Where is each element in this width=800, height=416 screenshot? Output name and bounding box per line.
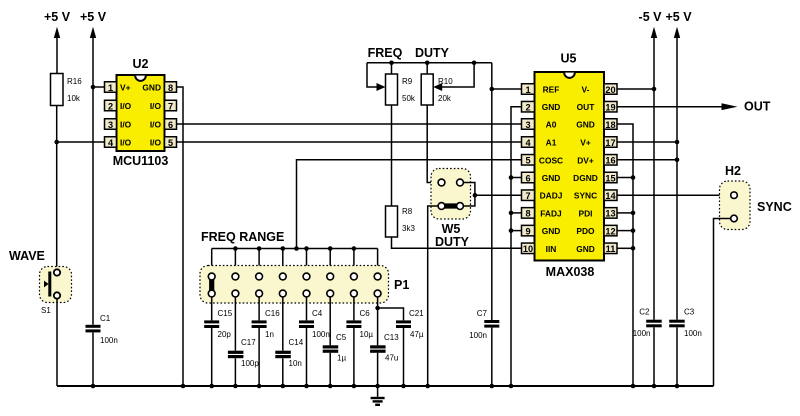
wire C17 to rail — [234, 358, 236, 386]
wire REF vertical line down to C7 — [491, 63, 493, 320]
svg-text:FADJ: FADJ — [540, 208, 562, 218]
svg-text:+5 V: +5 V — [665, 10, 692, 24]
svg-text:DUTY: DUTY — [435, 235, 470, 249]
svg-text:8: 8 — [525, 209, 530, 219]
svg-text:2: 2 — [108, 101, 113, 111]
wire C4 to rail — [306, 328, 308, 386]
wire pin 15 stub — [617, 177, 633, 179]
U5 pin 4 box — [522, 137, 535, 148]
node REF / U5 pin 1 — [490, 87, 495, 92]
U2 pin 6 box — [165, 119, 177, 130]
wire bus stub col1 — [211, 249, 213, 274]
svg-text:4: 4 — [525, 138, 531, 148]
svg-text:C3: C3 — [684, 308, 695, 317]
svg-text:GND: GND — [142, 83, 161, 93]
node C21/rail — [401, 384, 406, 389]
power +5V supply 1 (left) — [44, 10, 71, 74]
svg-text:R9: R9 — [402, 77, 413, 86]
svg-text:100p: 100p — [241, 359, 259, 368]
wire pin 11 stub — [617, 247, 633, 249]
potentiometer R10 20k — [421, 63, 474, 105]
svg-text:7: 7 — [525, 191, 530, 201]
svg-text:C4: C4 — [312, 309, 323, 318]
resistor R8 3k3 — [386, 206, 416, 237]
U5 pin 20 box — [604, 84, 617, 95]
U5 pin 15 box — [604, 172, 617, 183]
wire U5 pin 5 COSC to P1 bus — [297, 160, 522, 249]
capacitor C21 47u — [396, 309, 424, 339]
node bus col7 — [352, 246, 357, 251]
wire C15 to rail — [211, 328, 213, 386]
svg-text:18: 18 — [605, 120, 615, 130]
capacitor C15 20p — [204, 309, 233, 339]
node R10 wiper tap — [472, 61, 477, 66]
svg-text:100n: 100n — [684, 329, 702, 338]
wire U5 pin 16 to +5V — [617, 159, 677, 161]
resistor R16 — [51, 74, 83, 106]
svg-text:U2: U2 — [133, 57, 149, 71]
svg-text:R8: R8 — [402, 207, 413, 216]
svg-text:C16: C16 — [265, 309, 280, 318]
svg-text:100n: 100n — [312, 330, 330, 339]
node junction +5V / U2 pin 1 — [91, 85, 96, 90]
wire pin 9 stub — [511, 230, 522, 232]
capacitor C16 1n — [252, 309, 281, 339]
wire pin 12 stub — [617, 230, 633, 232]
svg-text:MCU1103: MCU1103 — [113, 154, 169, 168]
U5 pin 18 box — [604, 119, 617, 130]
power -5V supply — [639, 10, 663, 320]
wire U5 pin 17 to +5V — [617, 141, 677, 143]
capacitor C1 100n — [86, 314, 118, 345]
svg-text:I/O: I/O — [120, 138, 132, 148]
svg-text:20k: 20k — [438, 94, 452, 103]
wire H2 bottom to ground rail — [714, 219, 731, 387]
svg-text:FREQ: FREQ — [368, 46, 403, 60]
svg-text:C21: C21 — [409, 309, 424, 318]
wire C2 to rail — [653, 327, 655, 386]
wire cap stub col3 — [258, 297, 260, 320]
node bus col5 — [304, 246, 309, 251]
svg-text:IIN: IIN — [546, 244, 557, 254]
svg-text:S1: S1 — [41, 306, 51, 315]
IC U5 MAX038 body — [535, 52, 605, 280]
svg-text:2: 2 — [525, 103, 530, 113]
node C17/rail — [233, 384, 238, 389]
wire cap stub col2 — [234, 297, 236, 351]
svg-text:I/O: I/O — [150, 101, 162, 111]
svg-text:C14: C14 — [289, 338, 304, 347]
wire branch to C21 — [378, 308, 404, 320]
wire bus stub col5 — [306, 249, 308, 274]
capacitor C5 1u — [323, 333, 347, 363]
wire cap stub col5 — [306, 297, 308, 320]
header P1 FREQ RANGE selector — [200, 266, 409, 304]
node right gnd pin 13 — [631, 211, 636, 216]
svg-text:U5: U5 — [561, 52, 577, 66]
node gnd line/rail — [509, 384, 514, 389]
U5 pin 8 box — [522, 208, 535, 219]
svg-text:11: 11 — [606, 244, 616, 254]
wire cap stub col8 — [377, 297, 379, 345]
node bus col6 — [328, 246, 333, 251]
svg-text:19: 19 — [605, 103, 615, 113]
wire R8 bottom to U5 pin 10 IIN — [392, 237, 522, 248]
P1 contact circles top row — [208, 273, 381, 280]
U2 pin 4 box — [105, 137, 117, 148]
svg-text:SYNC: SYNC — [757, 200, 792, 214]
jumper W5 DUTY — [431, 169, 475, 250]
U5 right pin labels — [573, 85, 598, 254]
IC U2 MCU1103 body — [113, 57, 169, 168]
U2 pin labels — [120, 83, 161, 148]
svg-text:13: 13 — [605, 209, 615, 219]
svg-text:V+: V+ — [580, 138, 591, 148]
svg-text:6: 6 — [525, 173, 530, 183]
svg-text:10µ: 10µ — [360, 330, 374, 339]
node C1/rail — [91, 384, 96, 389]
wire bus stub col3 — [258, 249, 260, 274]
svg-text:1n: 1n — [265, 330, 274, 339]
node pin20/-5V — [652, 87, 657, 92]
svg-text:3: 3 — [108, 120, 113, 130]
capacitor C17 100p — [228, 338, 259, 368]
node R9 top — [389, 61, 394, 66]
node C16/rail — [257, 384, 262, 389]
wire pin 8 stub — [511, 212, 522, 214]
svg-text:1: 1 — [525, 85, 530, 95]
U5 pin 5 box — [522, 155, 535, 166]
svg-text:I/O: I/O — [150, 138, 162, 148]
wire U2 pin 8 GND down to rail — [177, 87, 184, 386]
node col8/C21 branch — [375, 306, 380, 311]
svg-text:47u: 47u — [385, 354, 398, 363]
svg-text:C1: C1 — [100, 314, 111, 323]
svg-text:7: 7 — [168, 101, 173, 111]
svg-text:COSC: COSC — [539, 155, 563, 165]
capacitor C2 100n — [633, 308, 662, 339]
node pin17/+5V — [675, 140, 680, 145]
svg-text:20: 20 — [605, 85, 615, 95]
wire U5 pin 18 GND down to rail — [617, 124, 633, 386]
svg-text:10: 10 — [523, 244, 533, 254]
wire +5V to U2 pin 1 — [93, 86, 105, 88]
U2 pin 1 box — [105, 82, 117, 93]
svg-text:20p: 20p — [218, 330, 232, 339]
wire pin 13 stub — [617, 212, 633, 214]
node pin16/+5V — [675, 158, 680, 163]
svg-text:-5 V: -5 V — [639, 10, 663, 24]
svg-text:PDI: PDI — [579, 208, 593, 218]
wire C16 to rail — [258, 328, 260, 386]
svg-text:14: 14 — [605, 191, 616, 201]
node C14/rail — [281, 384, 286, 389]
node gnd line pin 8 — [509, 211, 514, 216]
node COSC/bus — [294, 246, 299, 251]
wire C21 to rail — [403, 328, 405, 386]
svg-text:V+: V+ — [120, 83, 131, 93]
wire cap stub col6 — [329, 297, 331, 345]
svg-text:A0: A0 — [546, 120, 557, 130]
svg-text:DUTY: DUTY — [415, 46, 450, 60]
wire R9 bottom to R8 top — [391, 105, 393, 206]
U2 pin 5 box — [165, 137, 177, 148]
U5 pin 9 box — [522, 225, 535, 236]
svg-text:17: 17 — [605, 138, 615, 148]
U2 pin 3 box — [105, 119, 117, 130]
svg-text:GND: GND — [576, 244, 595, 254]
svg-text:4: 4 — [108, 138, 114, 148]
svg-text:PDO: PDO — [576, 226, 595, 236]
wire U5 pin 19 OUT arrow — [617, 106, 723, 108]
node bus col4 — [281, 246, 286, 251]
svg-text:W5: W5 — [442, 222, 461, 236]
node gnd line pin 6 — [509, 175, 514, 180]
svg-text:1: 1 — [108, 83, 113, 93]
svg-text:C6: C6 — [360, 309, 371, 318]
node gnd line pin 9 — [509, 228, 514, 233]
svg-text:15: 15 — [605, 173, 615, 183]
node W5/DADJ — [473, 193, 478, 198]
U5 pin 7 box — [522, 190, 535, 201]
svg-text:GND: GND — [542, 102, 561, 112]
svg-text:9: 9 — [525, 226, 530, 236]
svg-text:I/O: I/O — [150, 120, 162, 130]
node C4/rail — [304, 384, 309, 389]
node right gnd pin 12 — [631, 228, 636, 233]
switch S1 WAVE pushbutton — [9, 249, 72, 315]
wire cap stub col7 — [353, 297, 355, 320]
svg-text:47µ: 47µ — [410, 330, 424, 339]
U5 pin 16 box — [604, 155, 617, 166]
wire bus stub col8 — [377, 249, 379, 274]
svg-text:+5 V: +5 V — [80, 10, 107, 24]
wire cap stub col1 — [211, 297, 213, 320]
wire REF top bus line — [367, 62, 492, 64]
capacitor C13 47u — [370, 333, 399, 363]
wire P1 selector bus — [212, 248, 378, 250]
power +5V supply (right) — [665, 10, 692, 320]
node C5/rail — [328, 384, 333, 389]
wire C3 to rail — [676, 327, 678, 386]
U5 pin 13 box — [604, 208, 617, 219]
node C3/rail — [675, 384, 680, 389]
svg-text:3k3: 3k3 — [402, 224, 415, 233]
svg-text:5: 5 — [525, 156, 530, 166]
header H2 SYNC — [720, 164, 792, 230]
wire cap stub col4 — [282, 297, 284, 351]
node R10 top — [425, 61, 430, 66]
U5 pin 1 box — [522, 84, 535, 95]
svg-text:V-: V- — [582, 85, 590, 95]
wire bus stub col2 — [234, 249, 236, 274]
svg-text:DADJ: DADJ — [540, 191, 563, 201]
wire C13 to rail — [377, 353, 379, 386]
svg-text:OUT: OUT — [577, 102, 596, 112]
svg-text:5: 5 — [168, 138, 173, 148]
svg-text:I/O: I/O — [120, 101, 132, 111]
svg-text:100n: 100n — [100, 336, 118, 345]
node bus col2 — [233, 246, 238, 251]
potentiometer R9 50k — [367, 63, 416, 105]
U5 pin 11 box — [604, 243, 617, 254]
U5 pin 6 box — [522, 172, 535, 183]
svg-text:R16: R16 — [67, 77, 82, 86]
svg-text:FREQ RANGE: FREQ RANGE — [201, 230, 284, 244]
P1 contact circles bottom row — [208, 290, 381, 297]
wire W5 bottom-left to ground rail — [428, 206, 438, 386]
node C2/rail — [652, 384, 657, 389]
svg-text:10k: 10k — [67, 94, 81, 103]
svg-text:WAVE: WAVE — [9, 249, 45, 263]
U5 pin 19 box — [604, 101, 617, 112]
node junction R16/S1/pin4 — [54, 140, 59, 145]
U2 pin 7 box — [165, 100, 177, 111]
wire U2 pin 6 to U5 pin 3 (A0) — [177, 123, 522, 125]
U5 pin 2 box — [522, 101, 535, 112]
svg-text:I/O: I/O — [120, 120, 132, 130]
U5 pin 3 box — [522, 119, 535, 130]
wire S1 bottom to ground rail — [56, 299, 58, 386]
wire U5 pin 2 GND line down to rail — [511, 107, 522, 386]
node C7/rail — [490, 384, 495, 389]
wire node to U2 pin 4 — [57, 141, 105, 143]
svg-text:DV+: DV+ — [577, 155, 594, 165]
wire pin 6 stub — [511, 177, 522, 179]
svg-text:C17: C17 — [241, 338, 256, 347]
capacitor C14 10n — [275, 338, 303, 368]
svg-text:A1: A1 — [546, 138, 557, 148]
svg-text:100n: 100n — [469, 331, 487, 340]
node right gnd pin 15 — [631, 175, 636, 180]
svg-text:C7: C7 — [477, 309, 488, 318]
wire C5 to rail — [329, 353, 331, 386]
svg-text:50k: 50k — [402, 94, 416, 103]
wire bus stub col6 — [329, 249, 331, 274]
capacitor C4 100n — [299, 309, 330, 339]
wire C7 to rail — [491, 328, 493, 386]
svg-text:MAX038: MAX038 — [546, 265, 595, 279]
svg-text:16: 16 — [605, 156, 615, 166]
svg-text:12: 12 — [605, 226, 615, 236]
wire C14 to rail — [282, 358, 284, 386]
node C13/rail — [375, 384, 380, 389]
node C6/rail — [352, 384, 357, 389]
node C15/rail — [209, 384, 214, 389]
wire bus stub col4 — [282, 249, 284, 274]
power +5V supply 2 — [80, 10, 107, 325]
svg-text:H2: H2 — [725, 164, 741, 178]
svg-text:DGND: DGND — [573, 173, 598, 183]
ground symbol — [371, 386, 385, 405]
svg-text:GND: GND — [576, 120, 595, 130]
node W5-gnd/rail — [425, 384, 430, 389]
capacitor C7 100n — [469, 309, 499, 340]
wire W5 to U5 pin 7 DADJ — [475, 194, 522, 196]
node bus col3 — [257, 246, 262, 251]
U5 left pin labels — [539, 85, 563, 254]
svg-text:C13: C13 — [384, 333, 399, 342]
wire REF to U5 pin 1 — [492, 88, 522, 90]
wire U5 pin 20 to -5V — [617, 88, 654, 90]
svg-text:+5 V: +5 V — [44, 10, 71, 24]
wire ground rail — [57, 385, 714, 387]
wire R16 bottom to switch S1 — [56, 106, 58, 270]
svg-text:C5: C5 — [336, 333, 347, 342]
node right gnd pin 11 — [631, 246, 636, 251]
U5 pin 12 box — [604, 225, 617, 236]
svg-text:OUT: OUT — [744, 100, 771, 114]
svg-text:REF: REF — [543, 85, 560, 95]
svg-text:SYNC: SYNC — [574, 191, 597, 201]
node pin8-gnd/rail — [181, 384, 186, 389]
U5 pin 14 box — [604, 190, 617, 201]
capacitor C3 100n — [669, 308, 702, 339]
U2 pin 8 box — [165, 82, 177, 93]
wire C6 to rail — [353, 328, 355, 386]
capacitor C6 10u — [346, 309, 373, 339]
U2 pin 2 box — [105, 100, 117, 111]
svg-text:8: 8 — [168, 83, 173, 93]
node right gnd/rail — [631, 384, 636, 389]
svg-text:100n: 100n — [633, 329, 651, 338]
svg-text:C15: C15 — [218, 309, 233, 318]
wire U2 pin 5 to U5 pin 4 (A1) — [177, 141, 522, 143]
wire bus stub col7 — [353, 249, 355, 274]
wire C1 to ground rail — [92, 332, 94, 386]
svg-text:3: 3 — [525, 120, 530, 130]
wire U5 pin 14 SYNC to H2 — [617, 194, 730, 196]
svg-text:C2: C2 — [639, 308, 650, 317]
P1 jumper bar col1 — [209, 277, 214, 293]
svg-text:GND: GND — [542, 226, 561, 236]
svg-text:6: 6 — [168, 120, 173, 130]
svg-text:GND: GND — [542, 173, 561, 183]
svg-text:P1: P1 — [394, 278, 409, 292]
U5 pin 10 box — [522, 243, 535, 254]
svg-text:1µ: 1µ — [337, 354, 346, 363]
wire R10 bottom to W5 top-left — [427, 105, 438, 183]
svg-text:10n: 10n — [289, 359, 302, 368]
U5 pin 17 box — [604, 137, 617, 148]
